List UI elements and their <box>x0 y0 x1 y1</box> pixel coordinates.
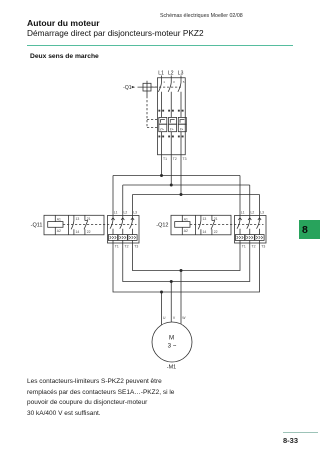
svg-text:L2: L2 <box>251 210 255 214</box>
svg-text:L3: L3 <box>133 210 137 214</box>
svg-text:-M1: -M1 <box>167 364 176 370</box>
svg-text:A2: A2 <box>57 229 61 233</box>
svg-text:W: W <box>182 316 186 320</box>
svg-text:T3: T3 <box>261 245 265 249</box>
svg-text:3: 3 <box>173 80 175 84</box>
svg-text:L2: L2 <box>124 210 128 214</box>
svg-text:13: 13 <box>203 217 207 221</box>
svg-text:3 ~: 3 ~ <box>168 343 177 350</box>
svg-text:21: 21 <box>87 217 91 221</box>
svg-text:T2: T2 <box>252 245 256 249</box>
svg-text:T1: T1 <box>242 245 246 249</box>
svg-text:T2: T2 <box>173 157 177 161</box>
svg-text:M: M <box>169 335 174 342</box>
svg-text:-Q11: -Q11 <box>31 222 43 228</box>
svg-text:L3: L3 <box>260 210 264 214</box>
svg-text:14: 14 <box>203 230 207 234</box>
svg-text:L1: L1 <box>241 210 245 214</box>
svg-text:V: V <box>173 316 176 320</box>
svg-text:T3: T3 <box>134 245 138 249</box>
svg-text:I>: I> <box>170 126 174 131</box>
svg-text:22: 22 <box>87 230 91 234</box>
svg-text:5: 5 <box>183 80 185 84</box>
svg-text:14: 14 <box>76 230 80 234</box>
svg-text:A2: A2 <box>184 229 188 233</box>
svg-text:L1: L1 <box>158 70 164 76</box>
svg-text:U: U <box>163 316 166 320</box>
svg-text:L3: L3 <box>178 70 184 76</box>
svg-text:-Q1: -Q1 <box>123 85 132 91</box>
svg-text:T1: T1 <box>163 157 167 161</box>
svg-text:1: 1 <box>163 80 165 84</box>
svg-text:21: 21 <box>214 217 218 221</box>
svg-text:T1: T1 <box>115 245 119 249</box>
svg-text:L2: L2 <box>168 70 174 76</box>
svg-text:L1: L1 <box>114 210 118 214</box>
svg-text:I>: I> <box>160 126 164 131</box>
svg-text:22: 22 <box>214 230 218 234</box>
svg-text:T3: T3 <box>183 157 187 161</box>
svg-text:-Q12: -Q12 <box>156 222 168 228</box>
svg-text:13: 13 <box>76 217 80 221</box>
svg-text:T2: T2 <box>125 245 129 249</box>
svg-text:A1: A1 <box>184 218 188 222</box>
svg-text:A1: A1 <box>57 218 61 222</box>
svg-text:I>: I> <box>180 126 184 131</box>
